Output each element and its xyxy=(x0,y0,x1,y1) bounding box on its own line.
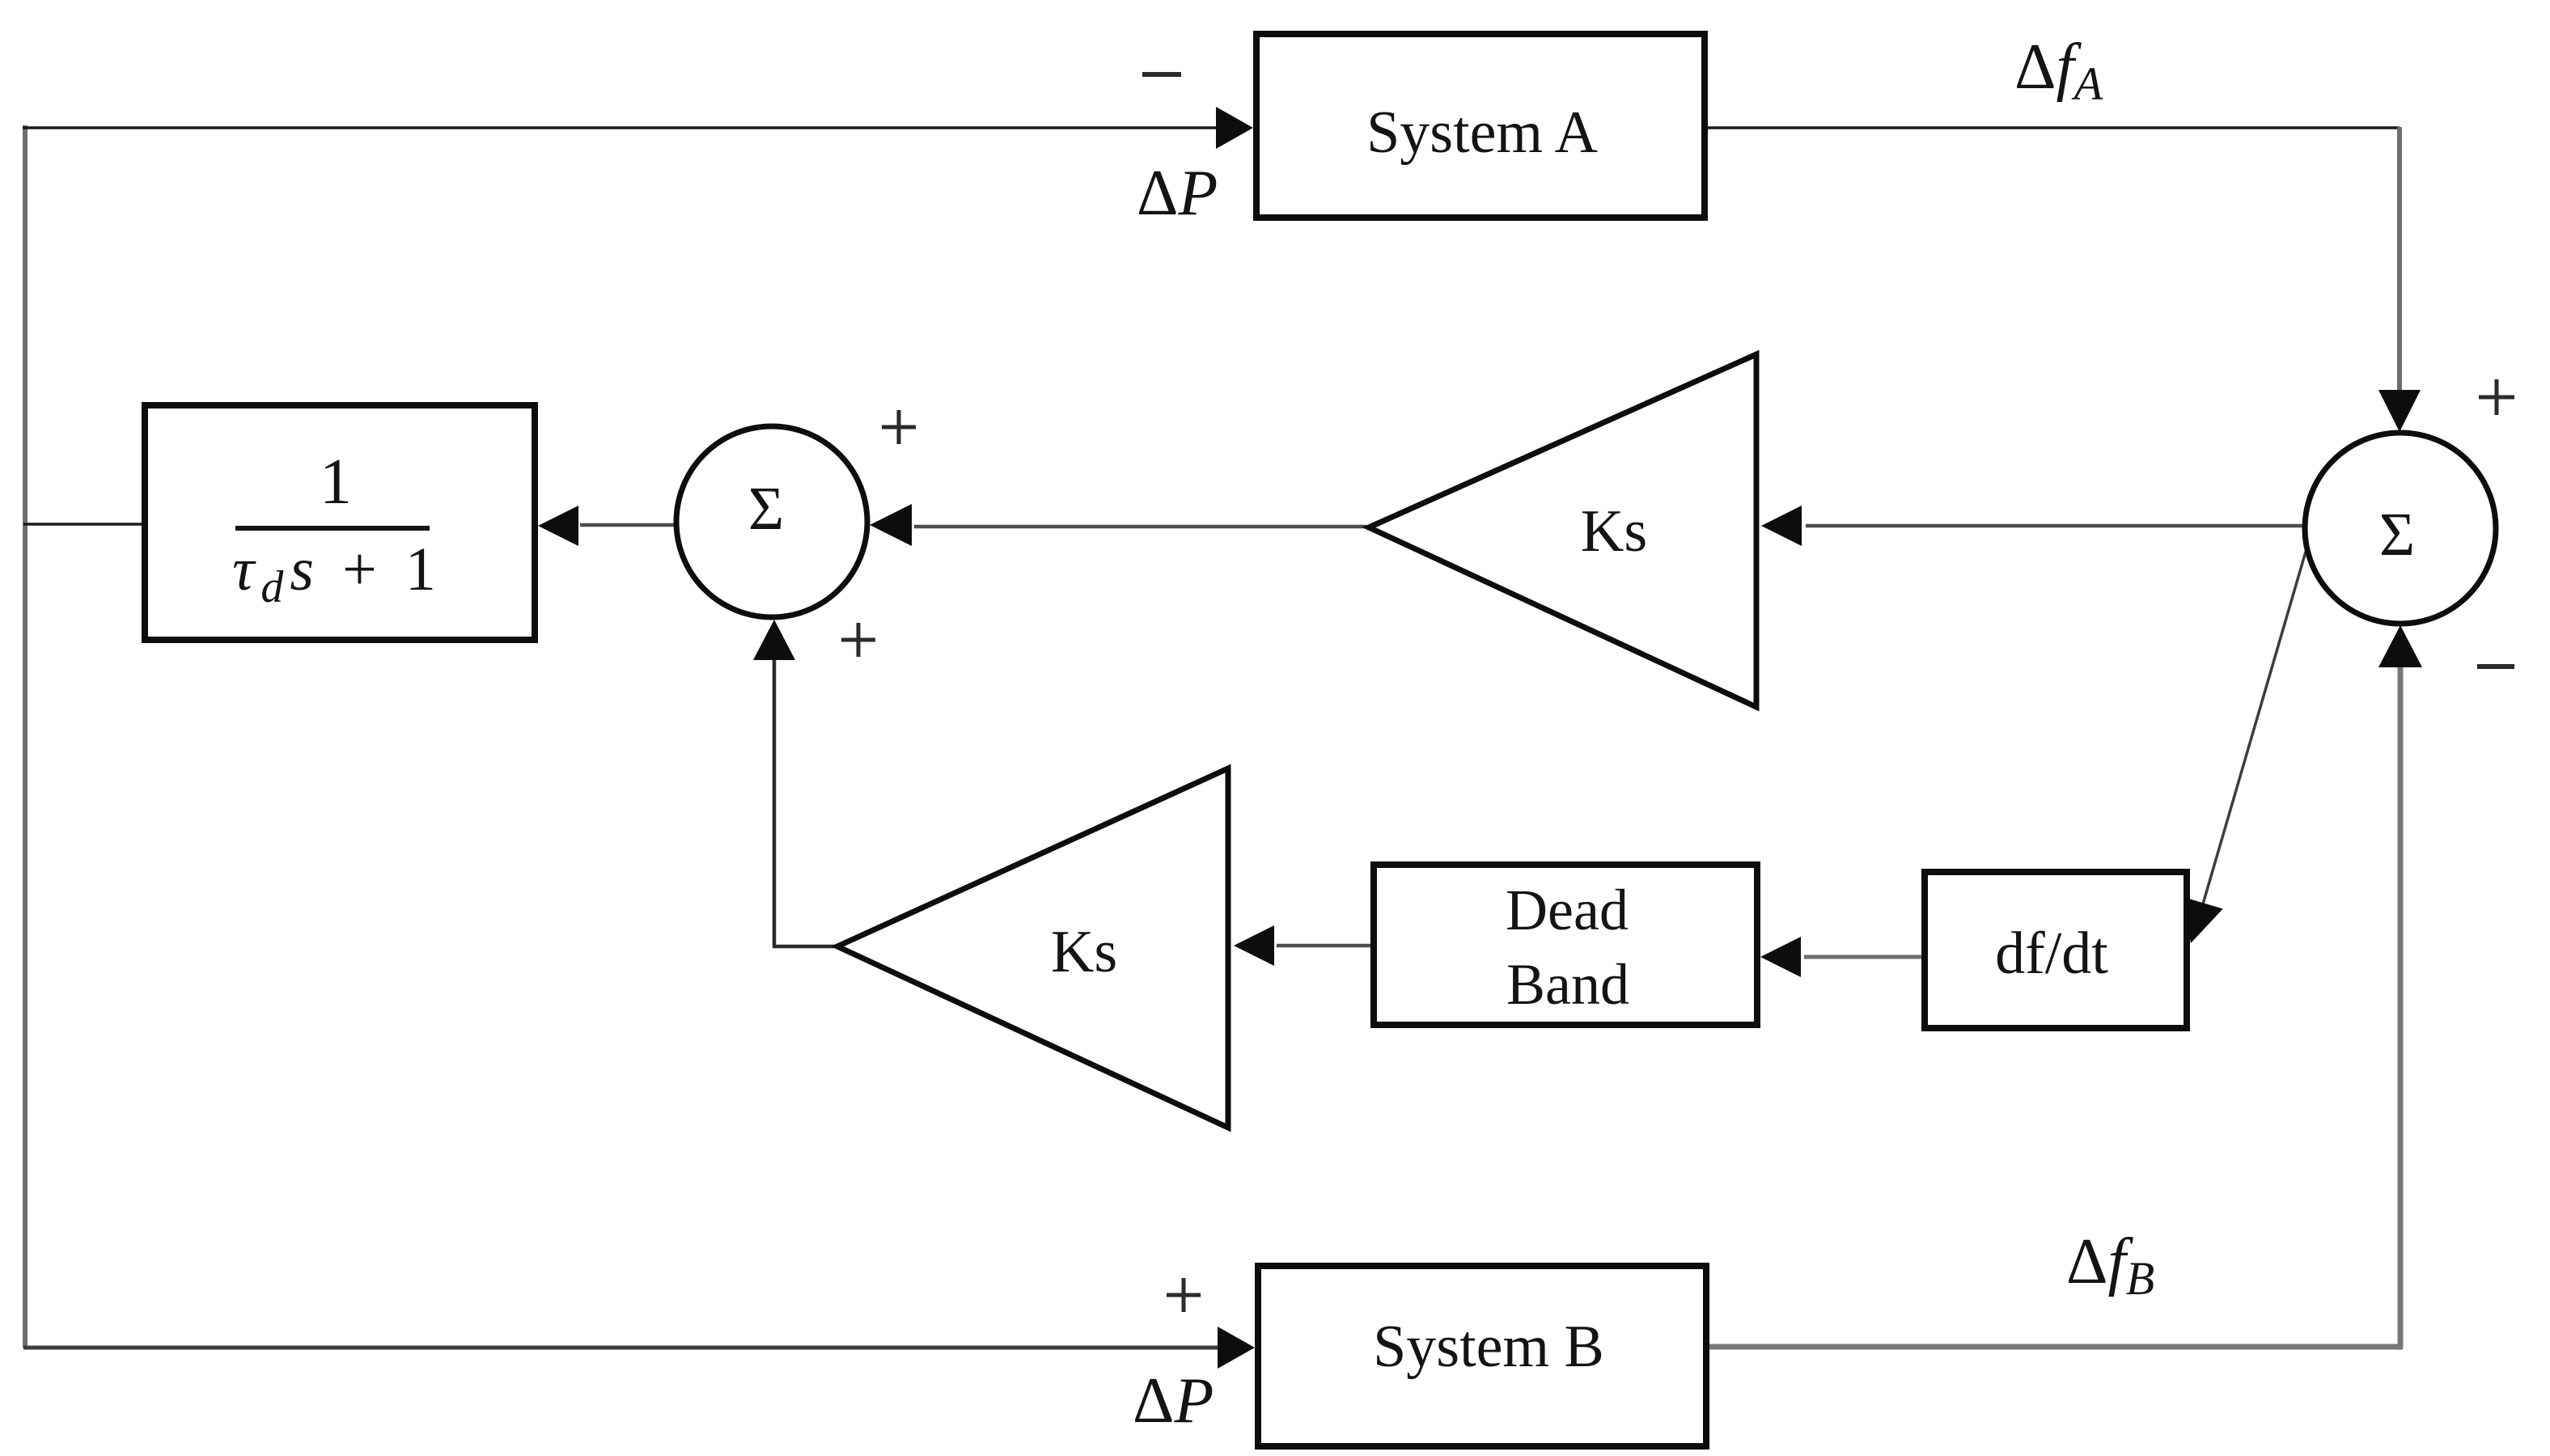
svg-text:Dead: Dead xyxy=(1506,878,1629,942)
svg-text:Ks: Ks xyxy=(1051,919,1117,985)
svg-text:System B: System B xyxy=(1373,1314,1604,1380)
svg-text:System A: System A xyxy=(1366,99,1598,166)
svg-text:Σ: Σ xyxy=(2379,501,2415,569)
svg-text:ΔP: ΔP xyxy=(1137,158,1218,229)
svg-text:Ks: Ks xyxy=(1581,498,1647,565)
svg-text:ΔP: ΔP xyxy=(1133,1365,1214,1437)
svg-text:Σ: Σ xyxy=(748,475,784,543)
svg-text:df/dt: df/dt xyxy=(1995,921,2108,987)
svg-text:Band: Band xyxy=(1506,952,1629,1017)
svg-text:1: 1 xyxy=(320,447,352,518)
